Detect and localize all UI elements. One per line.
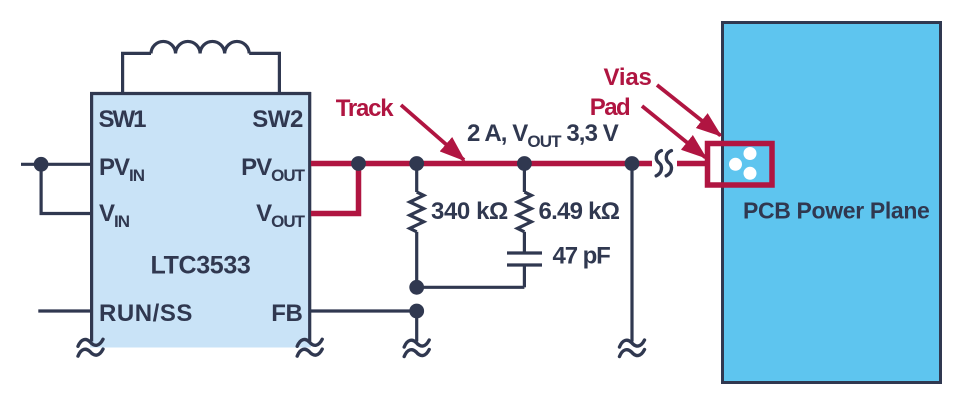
wire track PVOUT (crimson) segment 1: [311, 161, 652, 167]
svg-text:SW2: SW2: [252, 106, 303, 133]
svg-text:PCB Power Plane: PCB Power Plane: [743, 198, 929, 224]
PCB power plane: [723, 23, 941, 383]
via white dot 2: [744, 147, 757, 160]
svg-text:340 kΩ: 340 kΩ: [431, 198, 508, 225]
via white dot 1: [729, 158, 742, 171]
node dot cap link / R1: [409, 280, 424, 295]
wire VIN loop: [41, 164, 91, 213]
node dot track/VOUT: [351, 156, 366, 171]
svg-text:Vias: Vias: [604, 64, 652, 91]
wire RUN/SS stub: [38, 309, 91, 312]
svg-text:LTC3533: LTC3533: [151, 252, 251, 280]
svg-text:SW1: SW1: [99, 106, 147, 133]
node junction dot on PVIN: [34, 157, 49, 172]
svg-text:FB: FB: [271, 300, 302, 327]
capacitor C1 plates: [507, 253, 542, 287]
wire R1 bottom drop: [415, 311, 418, 342]
svg-text:47 pF: 47 pF: [553, 243, 611, 270]
arrow Vias: [657, 85, 721, 136]
arrow Pad: [642, 106, 706, 158]
svg-text:6.49 kΩ: 6.49 kΩ: [539, 198, 620, 225]
wire FB: [311, 309, 417, 312]
via white dot 3: [744, 167, 757, 180]
break symbol at IC right edge bottom: [297, 339, 322, 356]
break symbol under right drop: [620, 340, 645, 357]
inductor L1: [123, 41, 280, 92]
node dot track/right drop: [625, 156, 640, 171]
wire right vertical drop: [630, 164, 633, 342]
resistor R1 340k zigzag: [410, 164, 424, 288]
node dot FB / R1: [409, 304, 424, 319]
svg-text:Pad: Pad: [590, 94, 630, 121]
svg-text:RUN/SS: RUN/SS: [99, 300, 193, 327]
break in track (double squiggle): [656, 151, 671, 176]
wire PVIN stub: [21, 163, 91, 166]
node dot track/R1: [409, 156, 424, 171]
node dot track/R2: [517, 156, 532, 171]
arrow Track: [401, 105, 464, 160]
wire VOUT link (crimson): [311, 164, 359, 214]
svg-text:Track: Track: [336, 95, 395, 122]
break symbol under R1: [404, 340, 429, 357]
wire track segment 2 after break: [677, 161, 706, 167]
IC U1 LTC3533 body: [90, 92, 311, 348]
break symbol at IC left edge bottom: [78, 339, 103, 356]
resistor R2 6.49k zigzag: [517, 164, 531, 252]
pad (crimson square): [708, 144, 773, 186]
wire cap bottom link: [417, 286, 525, 289]
